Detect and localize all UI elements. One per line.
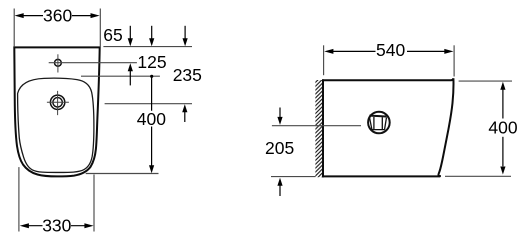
svg-text:400: 400 <box>137 109 166 129</box>
svg-text:540: 540 <box>376 40 405 60</box>
svg-text:205: 205 <box>265 138 294 158</box>
svg-text:400: 400 <box>488 118 517 138</box>
svg-text:235: 235 <box>173 65 202 85</box>
svg-text:330: 330 <box>42 216 71 236</box>
svg-text:360: 360 <box>43 5 72 25</box>
svg-text:65: 65 <box>103 25 122 45</box>
svg-text:125: 125 <box>137 52 166 72</box>
